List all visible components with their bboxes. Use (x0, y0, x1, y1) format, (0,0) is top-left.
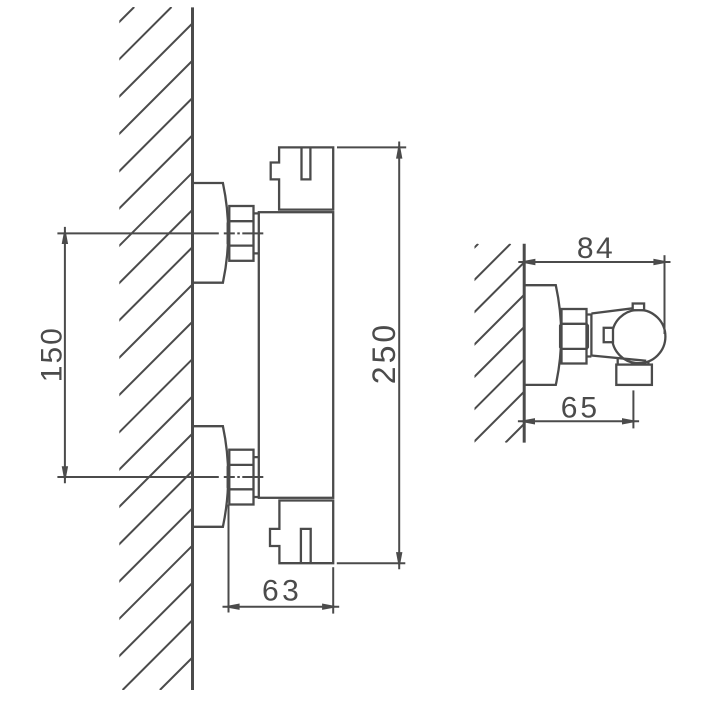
escutcheon lower (front view) (193, 426, 229, 527)
hex nut upper (front view) (228, 206, 254, 261)
connector stub upper (nut to body) (254, 213, 259, 253)
right wall face line (523, 244, 526, 443)
right wall hatching (279, 244, 704, 443)
bottom outlet block (front view) (270, 501, 333, 564)
left wall face line (191, 7, 194, 690)
svg-text:65: 65 (561, 391, 600, 424)
top outlet block (front view) (271, 147, 334, 209)
svg-text:250: 250 (366, 322, 402, 384)
dimension 65 (518, 390, 639, 428)
hex nut (side view) (560, 309, 588, 364)
mixer main body (front view) (259, 212, 333, 498)
outlet box (side view) (616, 365, 652, 385)
temperature knob circle (side view) (612, 310, 665, 363)
svg-text:150: 150 (36, 326, 69, 382)
bottom outlet slot (301, 529, 311, 563)
svg-text:84: 84 (577, 232, 615, 265)
tab on top of knob (633, 304, 644, 311)
connector stub lower (nut to body) (254, 457, 259, 497)
center line upper inlet (57, 232, 263, 234)
dimension 63 (223, 505, 340, 614)
valve body (side view) (591, 308, 646, 361)
connector stub (side view) (587, 315, 592, 357)
dimension 84 (518, 232, 670, 334)
dimension 250 (337, 142, 406, 570)
button notch on left of knob (604, 328, 613, 342)
top outlet slot (302, 147, 311, 179)
outlet collar (side view) (618, 359, 649, 365)
escutcheon upper (front view) (193, 183, 229, 283)
center line lower inlet (57, 476, 263, 478)
escutcheon (side view) (524, 285, 561, 385)
hex nut lower (front view) (228, 450, 254, 505)
dimension 150 (36, 227, 69, 483)
svg-text:63: 63 (262, 575, 302, 608)
